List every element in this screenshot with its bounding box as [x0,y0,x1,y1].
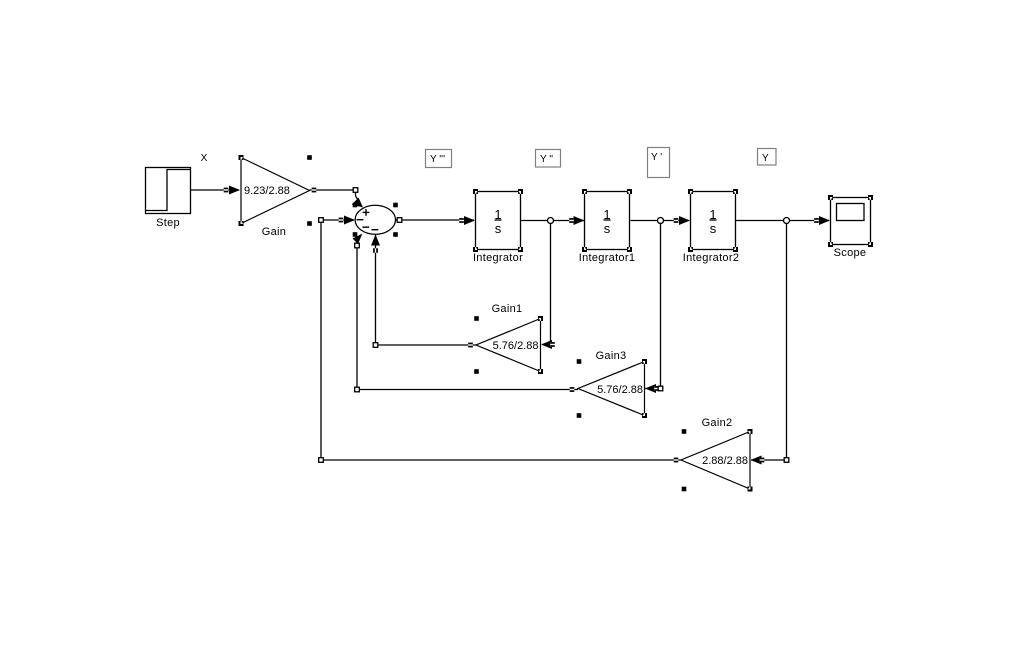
svg-text:9.23/2.88: 9.23/2.88 [244,185,290,197]
svg-text:s: s [495,221,502,236]
label Gain2 [702,417,733,429]
svg-text:X: X [201,153,208,164]
value label 5.76/2.88 of Gain1 [493,340,539,352]
svg-text:Y ''': Y ''' [430,154,445,165]
sum block Sum (ellipse) [353,203,398,237]
svg-text:s: s [710,221,717,236]
value label 5.76/2.88 of Gain3 [597,384,643,396]
gain block Gain1 (flipped triangle) [474,316,543,374]
annotation box Y''' [426,150,452,168]
svg-text:Integrator2: Integrator2 [683,252,740,264]
sum sign - (input 3) [362,226,369,228]
wire from Gain output to Sum + input (bend at top) [310,188,364,208]
label Step [156,217,180,229]
sum sign - (input 4) [372,229,379,231]
svg-text:5.76/2.88: 5.76/2.88 [493,340,539,352]
svg-text:Integrator1: Integrator1 [579,252,636,264]
label Integrator2 [683,252,740,264]
label Scope [834,247,867,259]
svg-text:Integrator: Integrator [473,252,523,264]
sum sign + (input 1) [363,209,370,216]
wire from Integrator2 output to Scope input [736,216,830,225]
value label 2.88/2.88 of Gain2 [702,455,748,467]
annotation box Y [758,149,777,166]
source block Step [146,168,191,214]
label Integrator [473,252,523,264]
svg-text:Gain1: Gain1 [492,303,523,315]
svg-text:Y ': Y ' [651,152,662,163]
svg-text:Scope: Scope [834,247,867,259]
label Gain [262,226,286,238]
svg-text:5.76/2.88: 5.76/2.88 [597,384,643,396]
junction node at Integrator1 output branch [658,218,664,224]
annotation box Y'' [536,150,561,168]
label Integrator1 [579,252,636,264]
integrator block Integrator [473,189,523,252]
svg-text:Gain: Gain [262,226,286,238]
value label 9.23/2.88 of Gain [244,185,290,197]
junction node at Integrator2 output branch [784,218,790,224]
svg-text:Gain2: Gain2 [702,417,733,429]
svg-text:Y: Y [762,153,769,164]
svg-text:2.88/2.88: 2.88/2.88 [702,455,748,467]
label Gain1 [492,303,523,315]
sum sign - (input 2) [357,219,364,221]
integrator block Integrator2 [688,189,738,252]
svg-text:Step: Step [156,217,180,229]
gain block Gain (triangle) [239,155,312,226]
wire from Sum output to Integrator input [396,216,476,225]
junction node at Integrator output branch [548,218,554,224]
gain block Gain3 (flipped triangle) [577,359,647,418]
wire from Gain3 output feedback to Sum - input (lower-left diagonal) [353,234,579,392]
label Gain3 [596,350,627,362]
wire from Integrator1 output to Integrator2 input [631,216,691,225]
annotation X [201,153,208,164]
wire from Gain2 output feedback to Sum - input (left) [319,216,681,463]
wire from Gain1 output feedback to Sum - input (bottom vertical) [371,235,476,348]
integrator block Integrator1 [582,189,632,252]
wire from Integrator output to Integrator1 input [521,216,585,225]
wire from junction down to Gain2 input [751,224,789,465]
svg-text:Gain3: Gain3 [596,350,627,362]
gain block Gain2 (flipped triangle) [681,429,753,492]
annotation box Y' [648,148,670,178]
wire from junction down to Gain3 input [645,224,663,394]
wire from Step output to Gain input [191,186,241,195]
wire from junction down to Gain1 input [541,224,555,350]
svg-text:s: s [604,221,611,236]
scope block Scope [828,195,873,247]
svg-text:Y '': Y '' [540,154,553,165]
